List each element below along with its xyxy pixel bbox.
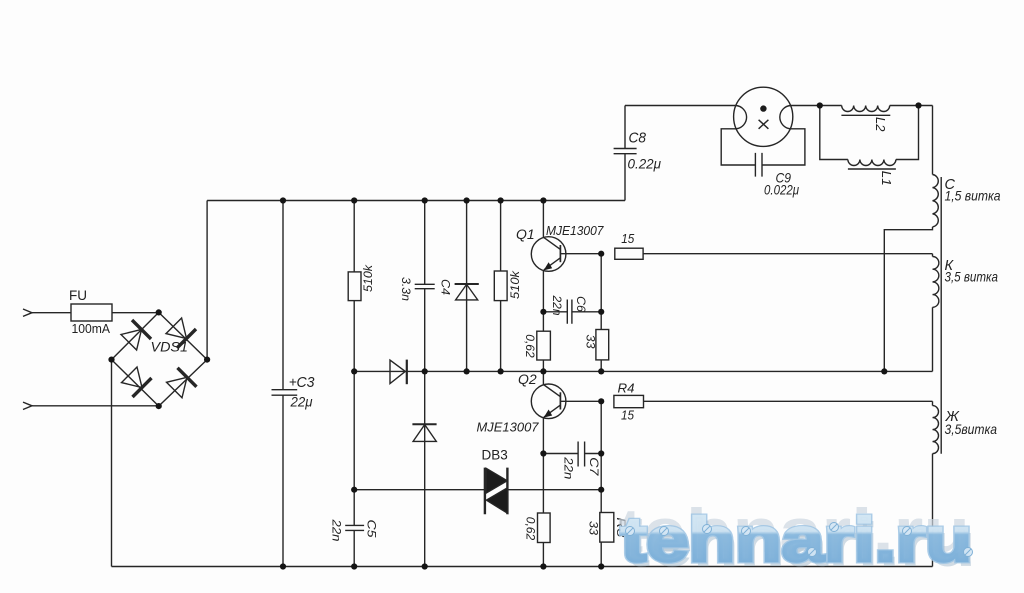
svg-text:33: 33 [587,521,599,536]
svg-text:22n: 22n [330,518,342,541]
svg-text:15: 15 [621,231,635,246]
svg-text:C4: C4 [438,279,450,295]
svg-text:tehnari.ru: tehnari.ru [621,506,972,575]
svg-text:MJE13007: MJE13007 [477,420,540,435]
svg-text:C7: C7 [587,457,599,476]
svg-text:0.022μ: 0.022μ [764,182,799,198]
svg-text:22n: 22n [550,294,562,315]
svg-text:DB3: DB3 [482,448,508,463]
svg-text:0,62: 0,62 [523,334,535,358]
svg-text:MJE13007: MJE13007 [546,223,604,238]
svg-text:22μ: 22μ [290,394,313,410]
svg-text:3,5 витка: 3,5 витка [945,268,999,284]
svg-text:C6: C6 [574,296,586,313]
svg-text:3.3n: 3.3n [399,277,411,301]
svg-text:C5: C5 [365,520,377,539]
svg-text:C8: C8 [629,131,647,147]
svg-text:510k: 510k [510,270,522,299]
svg-text:Q2: Q2 [518,371,537,387]
svg-text:Q1: Q1 [516,226,535,242]
svg-text:FU: FU [69,288,87,303]
svg-text:0.22μ: 0.22μ [628,156,662,172]
svg-text:33: 33 [584,335,596,350]
svg-text:3,5витка: 3,5витка [945,421,998,437]
svg-text:L1: L1 [879,171,893,186]
svg-text:15: 15 [621,408,635,423]
svg-text:VDS1: VDS1 [151,340,189,355]
svg-text:0,62: 0,62 [523,517,535,541]
svg-text:R4: R4 [618,381,635,396]
svg-text:100mA: 100mA [72,321,111,336]
svg-text:C3: C3 [297,375,315,391]
svg-text:510k: 510k [363,264,375,292]
svg-text:22n: 22n [562,456,574,479]
svg-text:L2: L2 [873,117,887,132]
svg-text:1,5 витка: 1,5 витка [945,187,1001,203]
